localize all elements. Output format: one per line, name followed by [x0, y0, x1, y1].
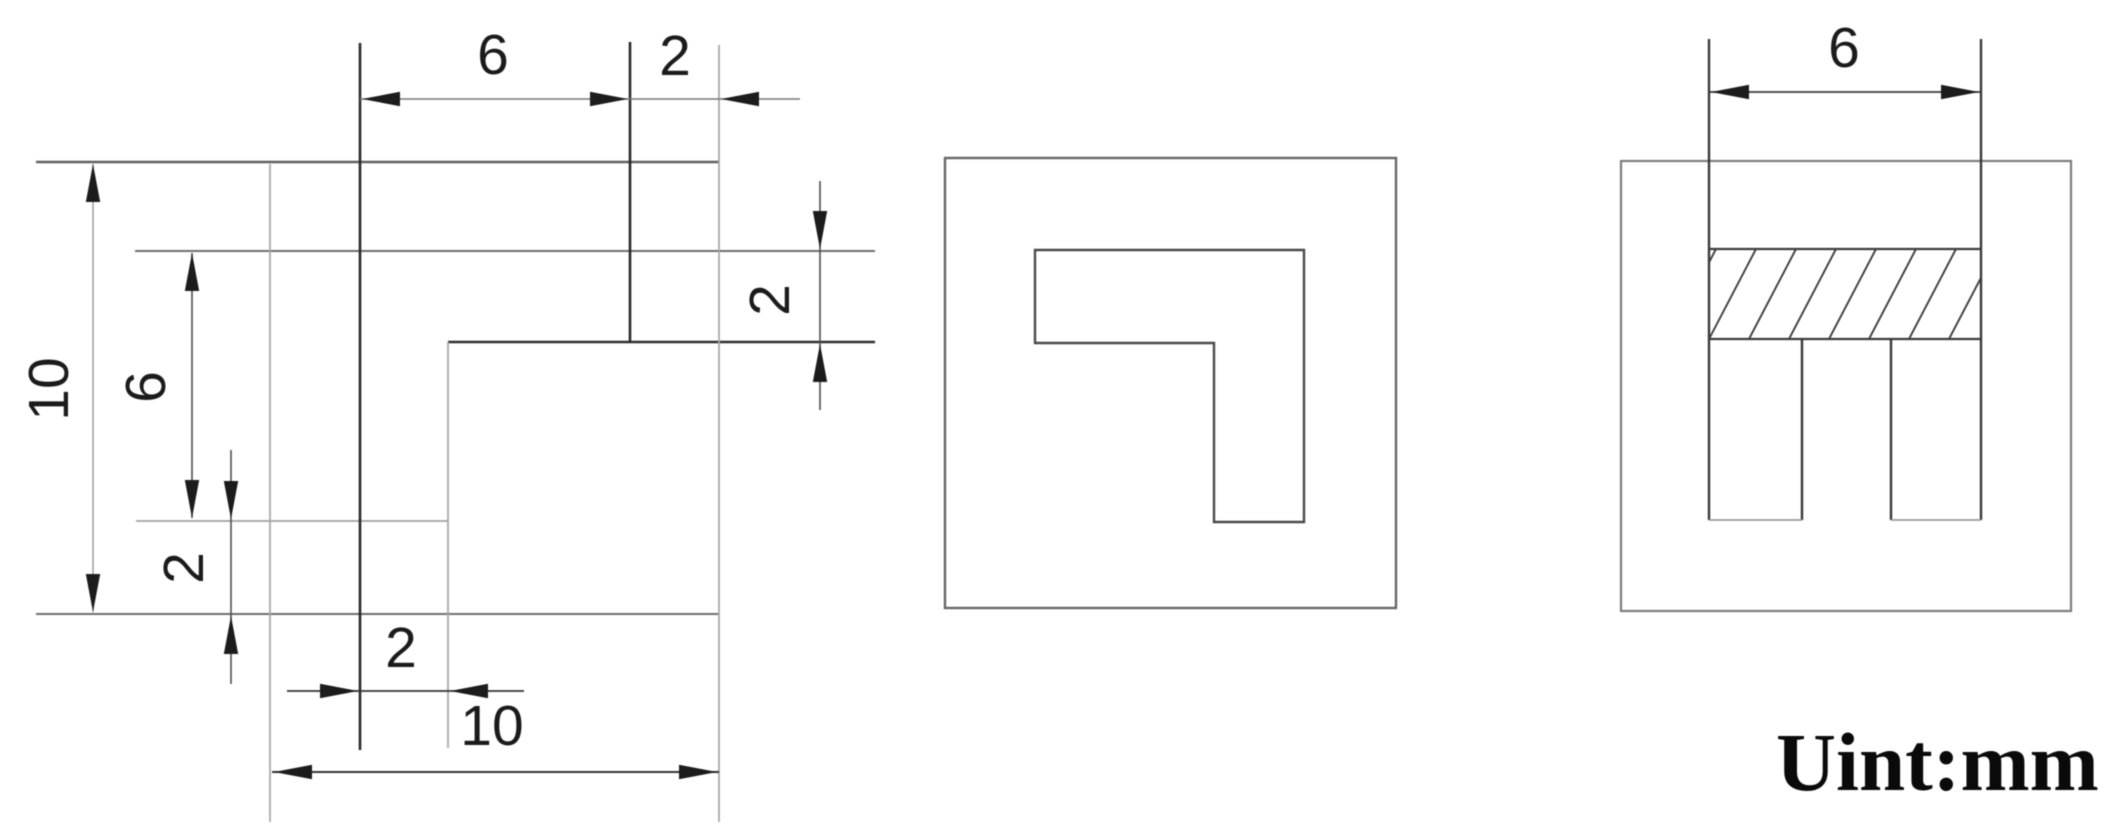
svg-text:6: 6 — [477, 23, 509, 87]
bottom edge line — [36, 613, 719, 615]
dimension 2 top tail — [630, 98, 800, 100]
arrow right of dim 10 bottom — [679, 765, 717, 779]
hatched region border top — [1709, 248, 1981, 250]
hatching — [1669, 249, 1996, 339]
arrow up of dim 2 left — [224, 616, 238, 654]
svg-text:10: 10 — [17, 357, 81, 420]
top edge line — [36, 161, 719, 163]
middle L-shaped slot — [1035, 250, 1304, 522]
arrow left of dim 6 top — [362, 92, 400, 106]
dimension 10 left line — [92, 164, 94, 612]
vertical slot right edge — [629, 42, 632, 342]
arrow left of dim 2 bottom — [450, 684, 488, 698]
right leg bottom — [1891, 519, 1981, 521]
arrow down of dim 6 left — [185, 480, 199, 518]
step line — [448, 341, 875, 343]
arrow down of dim 2 right — [813, 211, 827, 249]
left extension line — [269, 164, 271, 822]
arrow down of dim 10 left — [86, 574, 100, 612]
leg inner left edge — [1801, 339, 1803, 520]
arrow left of dim 6 right view — [1711, 85, 1749, 99]
vertical slot left edge — [359, 43, 362, 750]
arrow down of dim 2 left — [224, 481, 238, 519]
dimension 6 left line — [191, 253, 193, 518]
dimension 2 right line — [819, 181, 821, 410]
svg-text:2: 2 — [738, 284, 802, 316]
svg-text:6: 6 — [114, 371, 178, 403]
dimension 6 top line — [360, 98, 630, 100]
svg-text:10: 10 — [460, 694, 523, 758]
svg-text:6: 6 — [1828, 16, 1860, 80]
leg inner right edge — [1890, 339, 1892, 520]
light line at 8 units — [136, 520, 448, 522]
slot top line — [135, 250, 875, 252]
dimension 6 right view line — [1709, 91, 1981, 93]
arrow up of dim 10 left — [86, 164, 100, 202]
arrow up of dim 6 left — [185, 253, 199, 291]
svg-text:Uint:mm: Uint:mm — [1776, 716, 2099, 808]
right extension line — [718, 45, 720, 822]
middle extension line — [447, 342, 449, 748]
arrow right of dim 6 right view — [1941, 85, 1979, 99]
right slot right edge — [1980, 39, 1982, 520]
right outer square — [1621, 161, 2071, 611]
arrow up of dim 2 right — [813, 344, 827, 382]
dimension 10 bottom line — [272, 771, 719, 773]
svg-text:2: 2 — [385, 616, 417, 680]
arrow left of dim 10 bottom — [274, 765, 312, 779]
right slot left edge — [1708, 39, 1710, 520]
svg-text:2: 2 — [659, 24, 691, 88]
arrow right of dim 6 top — [590, 92, 628, 106]
left leg bottom — [1709, 519, 1802, 521]
middle outer square — [945, 158, 1396, 608]
dimension 2 bottom line — [287, 690, 524, 692]
svg-text:2: 2 — [152, 552, 216, 584]
dimension 2 left line — [230, 450, 232, 684]
arrow right of dim 2 bottom — [320, 684, 358, 698]
hatched region border bottom — [1709, 338, 1981, 340]
arrow of dim 2 top — [721, 92, 759, 106]
